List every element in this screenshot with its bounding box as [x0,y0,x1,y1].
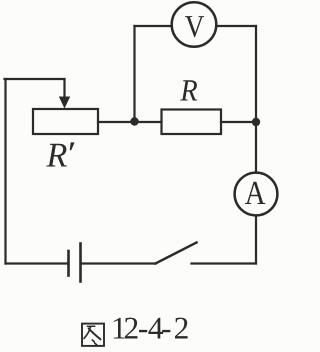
resistor value label R [180,80,197,100]
battery GB negative plate (short) [67,251,70,276]
wire voltmeter left horizontal [135,25,172,27]
wire left side of voltmeter loop down to node A [133,26,135,122]
wire rheostat R' to node A [98,121,135,123]
wire left vertical [4,79,6,264]
wire top-left horizontal [5,78,65,80]
caption figure number 12-4-2 [114,318,188,339]
ammeter label A [245,182,265,204]
wire switch right contact to corner [192,262,257,264]
rheostat R' body [33,109,98,134]
wire ammeter top to node B [255,122,257,173]
switch S lever [156,243,197,264]
wire node B up right side of voltmeter loop [255,26,257,122]
wire bottom-right vertical to ammeter [255,216,257,264]
voltmeter label V [185,16,204,37]
wire resistor R to node B [221,121,256,123]
wire voltmeter right horizontal [216,25,256,27]
rheostat value label R prime [46,144,67,167]
wire bottom-left to battery [6,262,68,264]
wire battery to switch [82,262,156,264]
resistor R body [162,110,222,135]
wire node A to resistor R [135,121,162,123]
voltmeter U1 circle [172,2,217,47]
caption character tu (figure) [82,324,104,346]
rheostat R' wiper arrowhead [59,97,70,109]
node A junction dot [130,117,138,125]
battery GB positive plate (long) [79,244,82,282]
node B junction dot [252,118,260,126]
ammeter U2 circle [235,173,278,216]
rheostat R' wiper stem [63,79,65,99]
